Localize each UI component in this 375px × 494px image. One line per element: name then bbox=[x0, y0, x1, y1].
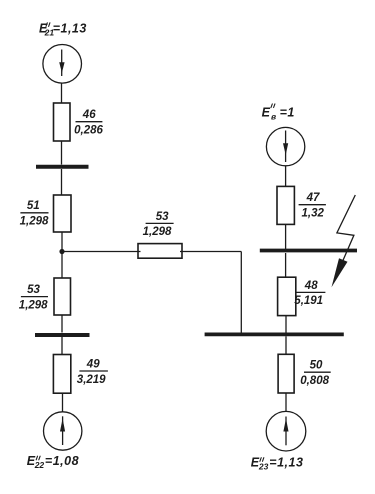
svg-text:46: 46 bbox=[82, 109, 96, 121]
svg-text:5,191: 5,191 bbox=[294, 295, 323, 307]
svg-text:=1,13: =1,13 bbox=[53, 22, 87, 36]
svg-text:1,32: 1,32 bbox=[302, 208, 325, 220]
svg-text:53: 53 bbox=[156, 211, 169, 223]
svg-text:=1,08: =1,08 bbox=[45, 454, 79, 468]
svg-text:1,298: 1,298 bbox=[19, 299, 48, 311]
svg-text:3,219: 3,219 bbox=[77, 374, 106, 386]
svg-text:51: 51 bbox=[27, 200, 40, 212]
svg-text:50: 50 bbox=[310, 360, 323, 372]
svg-text:47: 47 bbox=[306, 192, 320, 204]
svg-text:1,298: 1,298 bbox=[143, 226, 172, 238]
svg-text:в: в bbox=[271, 112, 276, 122]
svg-text:22: 22 bbox=[34, 460, 45, 470]
svg-text:49: 49 bbox=[86, 358, 100, 370]
svg-text:=1: =1 bbox=[280, 106, 295, 120]
svg-text:0,808: 0,808 bbox=[300, 375, 329, 387]
svg-text:48: 48 bbox=[304, 280, 318, 292]
svg-text:23: 23 bbox=[258, 461, 269, 471]
svg-text:1,298: 1,298 bbox=[20, 216, 49, 228]
svg-text:0,286: 0,286 bbox=[74, 125, 103, 137]
svg-text:53: 53 bbox=[27, 284, 40, 296]
svg-text:=1,13: =1,13 bbox=[269, 456, 303, 470]
svg-text:E: E bbox=[262, 106, 271, 120]
